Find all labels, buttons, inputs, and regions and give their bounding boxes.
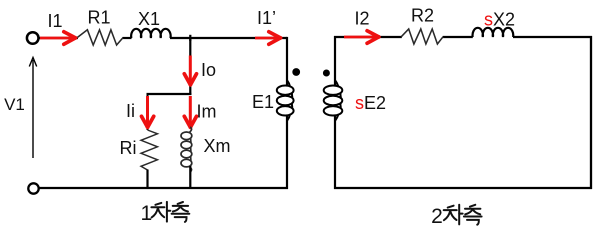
wire secondary left bottom — [334, 115, 336, 190]
svg-text:Ri: Ri — [120, 138, 137, 158]
inductor Xm — [181, 127, 192, 172]
arrow I1' — [255, 32, 281, 45]
svg-text:sX2: sX2 — [484, 10, 515, 30]
terminal bottom-left — [28, 183, 38, 193]
wire E1 branch bottom — [286, 115, 288, 190]
node junction stub — [189, 35, 191, 41]
inductor X1 — [131, 29, 171, 38]
polarity dot secondary — [323, 70, 330, 77]
label 2차측 — [431, 205, 481, 228]
winding sE2 — [324, 80, 343, 121]
svg-text:I2: I2 — [354, 8, 369, 28]
svg-text:2: 2 — [431, 205, 443, 228]
svg-text:V1: V1 — [4, 95, 25, 114]
svg-text:Xm: Xm — [204, 136, 231, 156]
svg-text:Io: Io — [201, 60, 216, 80]
resistor Ri — [141, 130, 158, 170]
wire top primary — [39, 37, 288, 39]
wire top secondary — [334, 36, 592, 38]
arrow Io — [184, 56, 196, 85]
wire secondary right — [590, 36, 592, 189]
arrow I1 — [40, 32, 76, 45]
wire bottom primary — [39, 187, 289, 189]
svg-text:1: 1 — [140, 202, 152, 225]
arrow Im — [184, 96, 196, 127]
wire Ri lead bottom — [146, 170, 148, 190]
winding E1 — [277, 80, 294, 121]
svg-text:Im: Im — [197, 102, 217, 122]
svg-text:Ii: Ii — [126, 101, 135, 121]
resistor R2 — [401, 29, 443, 44]
svg-text:I1’: I1’ — [257, 8, 276, 28]
wire secondary left top — [334, 36, 336, 86]
arrow I2 — [344, 31, 379, 44]
wire Ii lead — [147, 94, 149, 130]
wire bottom secondary — [334, 187, 592, 189]
wire E1 branch top — [286, 37, 288, 86]
svg-text:E1: E1 — [252, 92, 274, 112]
svg-text:X1: X1 — [138, 9, 160, 29]
svg-text:R1: R1 — [87, 8, 110, 28]
svg-text:R2: R2 — [411, 6, 434, 26]
svg-text:sE2: sE2 — [355, 93, 386, 113]
terminal top-left — [27, 32, 39, 44]
svg-text:I1: I1 — [47, 11, 62, 31]
label 1차측 — [140, 202, 189, 225]
wire shunt branch horizontal — [147, 93, 192, 95]
arrow Ii — [142, 96, 154, 127]
resistor R1 — [77, 30, 123, 45]
inductor sX2 — [473, 28, 514, 37]
wire Io branch — [189, 38, 191, 95]
V1 source arrow — [29, 58, 36, 159]
wire Xm lead bottom — [189, 166, 191, 189]
polarity dot primary — [292, 68, 300, 76]
